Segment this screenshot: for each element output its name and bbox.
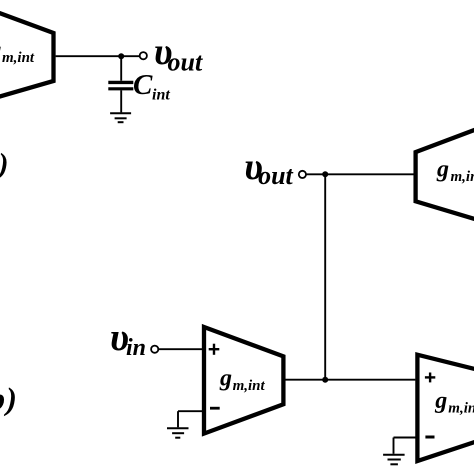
svg-text:C: C	[133, 69, 153, 101]
svg-text:in: in	[126, 335, 146, 361]
junction dot top (b)	[322, 171, 328, 177]
wire A4 minus input to ground	[394, 438, 417, 454]
svg-text:m,int: m,int	[448, 401, 474, 417]
wire vout terminal to A3 input	[306, 173, 413, 175]
svg-text:out: out	[168, 48, 203, 77]
plus sign A4	[425, 373, 435, 383]
op-amp A1 (transconductor, output right)	[0, 6, 54, 102]
wire A1 output to vout terminal	[56, 55, 140, 57]
wire junction to capacitor	[120, 56, 122, 80]
label vout (b)	[244, 146, 293, 190]
ground symbol G2	[167, 428, 189, 438]
label gm,int of A3	[436, 157, 474, 186]
open terminal circle vout (a)	[140, 52, 147, 59]
svg-text:m,int: m,int	[2, 50, 35, 66]
svg-text:out: out	[258, 161, 293, 190]
minus sign A4	[425, 436, 434, 439]
wire vin to A2 + input	[159, 348, 203, 350]
label vout (a)	[154, 31, 203, 77]
svg-text:g: g	[434, 388, 447, 414]
open terminal circle vout (b)	[299, 171, 306, 178]
label gm,int of A1	[0, 38, 35, 66]
label C_int	[133, 69, 170, 103]
svg-text:m,int: m,int	[451, 169, 474, 185]
label gm,int of A4	[434, 388, 474, 417]
svg-text:m,int: m,int	[233, 378, 266, 394]
op-amp A2 (input transconductor)	[204, 327, 283, 434]
svg-text:): )	[0, 148, 9, 181]
capacitor C_int plates	[108, 82, 133, 88]
svg-text:g: g	[436, 157, 449, 183]
junction dot bottom (b)	[322, 377, 328, 383]
op-amp A4 (second transconductor)	[417, 355, 474, 461]
ground symbol G1	[110, 113, 131, 122]
svg-text:g: g	[219, 366, 232, 392]
vertical wire vout node down to bottom node	[324, 174, 326, 379]
svg-text:): )	[3, 381, 17, 417]
wire A2 output to bottom node and A4 + input	[285, 379, 415, 381]
op-amp A3 (feedback transconductor, pointing left)	[416, 128, 474, 221]
open terminal circle vin	[151, 346, 158, 353]
wire A2 minus input to ground	[178, 411, 204, 427]
label vin	[110, 316, 146, 361]
plus sign A2	[209, 344, 220, 355]
svg-text:b: b	[0, 381, 5, 417]
ground symbol G3	[383, 455, 405, 465]
svg-text:int: int	[152, 86, 170, 103]
label gm,int of A2	[219, 366, 266, 395]
minus sign A2	[210, 407, 220, 410]
node junction dot (a)	[118, 53, 124, 59]
wire capacitor to ground	[120, 90, 122, 112]
